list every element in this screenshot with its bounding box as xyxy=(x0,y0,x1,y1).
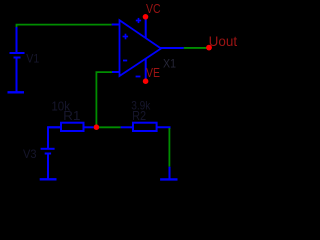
ground (R2) stub xyxy=(169,167,171,179)
node VC dot xyxy=(143,14,149,20)
op-amp output lead xyxy=(160,47,184,49)
op-amp VC pin xyxy=(145,17,147,38)
resistor R1 xyxy=(48,123,94,131)
ground (V3) xyxy=(40,178,57,180)
junction node dot xyxy=(94,124,100,130)
wire junction to R2 xyxy=(96,126,120,128)
wire -input net: junction up and into -input xyxy=(96,72,112,127)
resistor R2 xyxy=(121,123,170,131)
node VE dot xyxy=(143,78,149,84)
wire R2 to ground xyxy=(168,128,170,167)
op-amp input leads xyxy=(112,25,120,73)
svg-text:X1: X1 xyxy=(163,57,176,71)
wire output to Uout xyxy=(184,47,207,49)
svg-text:VE: VE xyxy=(146,65,160,80)
ground (R2) bar xyxy=(160,178,177,180)
op-amp U=X1 triangle xyxy=(120,20,162,76)
ground (V1) xyxy=(8,91,25,93)
op-amp supply - marker xyxy=(136,76,141,78)
op-amp supply + marker xyxy=(136,18,141,23)
op-amp + input marker xyxy=(123,34,129,40)
battery V1 xyxy=(10,27,25,92)
op-amp VE pin xyxy=(145,59,147,81)
svg-text:VC: VC xyxy=(146,1,161,16)
wire V1+ to op-amp +input xyxy=(17,25,112,27)
svg-text:Uout: Uout xyxy=(209,33,238,49)
wire V3 to R1 xyxy=(48,127,61,148)
svg-text:V1: V1 xyxy=(26,54,39,66)
node Uout dot xyxy=(206,45,212,51)
op-amp - input marker xyxy=(123,60,127,62)
svg-text:R2: R2 xyxy=(132,109,146,123)
svg-text:V3: V3 xyxy=(23,149,37,161)
svg-text:R1: R1 xyxy=(63,109,80,123)
battery V3 xyxy=(41,149,55,179)
